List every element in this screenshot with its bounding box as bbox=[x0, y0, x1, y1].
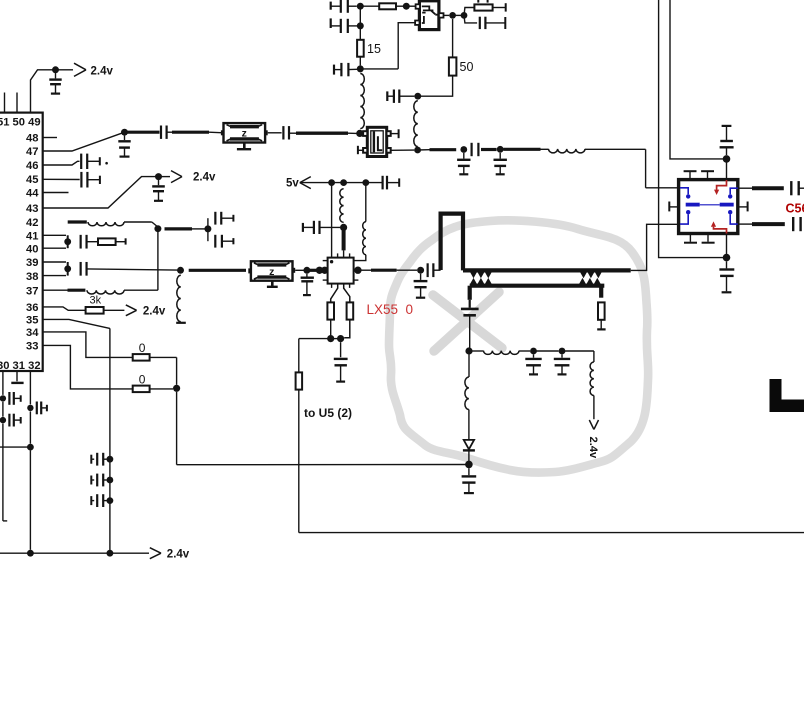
svg-text:2.4v: 2.4v bbox=[143, 306, 166, 318]
svg-text:43: 43 bbox=[26, 203, 38, 215]
mixer U3 body bbox=[679, 180, 738, 234]
node pin42 junction bbox=[154, 225, 161, 232]
wire R-top to node2 bbox=[396, 5, 403, 7]
svg-text:C56: C56 bbox=[786, 202, 804, 216]
IC U1 pin50 stub bbox=[16, 93, 18, 113]
wire node2 to Q1 bbox=[406, 5, 416, 7]
node IF2 bbox=[497, 146, 504, 153]
capacitor C-5v series bbox=[382, 176, 384, 190]
wire pin43 bbox=[43, 177, 156, 208]
crystal X1 pad RT bbox=[387, 131, 391, 136]
svg-text:42: 42 bbox=[26, 217, 38, 229]
wire pin39 long right bbox=[87, 269, 178, 270]
node p30 a bbox=[0, 395, 6, 401]
wire T1 secondary left end bbox=[468, 286, 472, 300]
wire X1 RT stub bbox=[391, 133, 399, 135]
svg-text:2.4v: 2.4v bbox=[193, 172, 216, 184]
capacitor C-det3 shunt bbox=[561, 354, 563, 357]
wire pin31 stub bbox=[16, 371, 18, 381]
node pin41-40 bbox=[64, 238, 71, 245]
wire C-32 out bbox=[41, 407, 46, 409]
wire pin33 bbox=[43, 345, 133, 389]
wire thick hairpin loop bbox=[441, 214, 463, 271]
wire coil to diode bbox=[468, 410, 470, 440]
inductor L-det horizontal bbox=[484, 351, 520, 355]
svg-text:39: 39 bbox=[26, 257, 38, 269]
wire pin39-38 bar bbox=[67, 262, 69, 276]
wire top row to R bbox=[360, 5, 379, 7]
node bias bbox=[340, 224, 347, 231]
filter FL2 left pad bbox=[248, 268, 251, 273]
node RC pair bbox=[461, 12, 468, 19]
wire R50 up bbox=[452, 19, 454, 57]
wire pin30 down c bbox=[2, 424, 4, 521]
mixer U3 top stub 1 bbox=[689, 172, 691, 180]
wire FL1 to C bbox=[268, 132, 282, 134]
arrow 2.4v pin43 bbox=[171, 171, 182, 177]
transistor Q1 pad D bbox=[439, 13, 444, 17]
ground filter FL2 bbox=[271, 281, 274, 286]
wire C-top1 to node bbox=[348, 5, 357, 7]
wire mixer out bottom bbox=[738, 223, 752, 225]
transformer T1 primary bumps bbox=[470, 272, 477, 279]
capacitor C-det2 shunt bbox=[533, 354, 535, 357]
crystal X1 electrode bars bbox=[373, 132, 375, 153]
mixer U3 bottom stub 1 bbox=[689, 234, 691, 242]
node 2.4v top-left junction bbox=[52, 66, 59, 73]
wire 2.4v bottom rail bbox=[0, 552, 149, 554]
IC U2 left stub top bbox=[323, 260, 328, 262]
svg-text:35: 35 bbox=[26, 315, 38, 327]
wire RC to cap bbox=[464, 15, 477, 23]
wire pin47 bbox=[43, 132, 125, 151]
wire C-42a out bbox=[221, 217, 233, 219]
mixer blue dot BR bbox=[728, 210, 732, 214]
wire bias bar to U2 bbox=[343, 250, 345, 257]
svg-text:2.4v: 2.4v bbox=[167, 549, 190, 561]
wire toU5 horizontal bbox=[299, 338, 331, 340]
arrow 2.4v bottom bbox=[150, 548, 161, 554]
capacitor C-FL2out shunt bbox=[301, 274, 314, 295]
wire thick pin42 right bbox=[165, 227, 193, 230]
wire det to coil bbox=[468, 355, 470, 378]
wire U2 out thin bbox=[397, 269, 417, 271]
transformer T1 secondary bbox=[470, 284, 605, 288]
wire pin47 right b bbox=[167, 131, 172, 133]
wire pin32 down b bbox=[29, 411, 31, 443]
wire agc down bbox=[593, 396, 595, 420]
capacitor C-30a series bbox=[8, 392, 10, 405]
crystal X1 pad RB bbox=[387, 148, 391, 153]
wire pin42 bend bbox=[152, 222, 158, 227]
wire det right d bbox=[562, 350, 594, 352]
node U2 out pad bbox=[354, 267, 361, 274]
capacitor C-top2 left tick bbox=[330, 18, 332, 28]
mixer blue bar right bbox=[720, 203, 734, 207]
wire thick pin37 bbox=[68, 289, 86, 292]
wire R-term down bbox=[600, 320, 602, 329]
svg-text:LX55 0: LX55 0 bbox=[367, 302, 414, 317]
wire thick pin47 right c bbox=[172, 131, 209, 134]
logo L mark bbox=[770, 379, 804, 412]
capacitor C-top3 series bbox=[340, 63, 342, 76]
capacitor C-42b series bbox=[214, 235, 216, 248]
node Rb out bbox=[337, 335, 344, 342]
IC U2 left stub bottom bbox=[323, 279, 328, 281]
wire thick pin47 right a bbox=[125, 131, 160, 134]
svg-text:36: 36 bbox=[26, 302, 38, 314]
capacitor C-load series bbox=[479, 17, 481, 29]
wire C-45 out bbox=[87, 179, 99, 181]
IC U2 bottom stub a bbox=[331, 284, 333, 288]
wire pin44 stub bbox=[43, 192, 69, 194]
transistor Q1 body bbox=[419, 1, 439, 30]
wire pin42 b bbox=[124, 221, 152, 223]
wire toU5 vertical b bbox=[298, 390, 300, 533]
wire thick out top bbox=[752, 186, 784, 190]
svg-text:41: 41 bbox=[26, 231, 38, 243]
mixer red arrow top bbox=[717, 180, 727, 190]
wire to crystal node bbox=[348, 132, 357, 134]
svg-text:40: 40 bbox=[26, 243, 38, 255]
wire C-42b out bbox=[222, 240, 233, 242]
resistor R-3k bbox=[86, 307, 104, 314]
node top-cap2 bbox=[357, 22, 364, 29]
wire R3k out bbox=[104, 309, 125, 311]
resistor R-b bbox=[347, 302, 354, 319]
capacitor C-42a series bbox=[214, 212, 216, 225]
wire pin30 down a bbox=[2, 371, 4, 395]
capacitor C-rb shunt bbox=[334, 342, 348, 381]
wire C-top2 lead bbox=[331, 25, 341, 27]
node rail-1 bbox=[27, 550, 34, 557]
arrow 5v bbox=[300, 177, 311, 183]
resistor R-top (base bias) bbox=[379, 3, 396, 9]
wire mixer out top bbox=[738, 187, 752, 189]
wire R0a down bbox=[176, 357, 178, 384]
capacitor C-32 series bbox=[36, 402, 38, 415]
IC U1 pin51 stub bbox=[4, 93, 6, 113]
node U2 in pad b bbox=[321, 267, 328, 274]
filter FL2 bbox=[251, 261, 293, 280]
node det bbox=[465, 347, 472, 354]
node p30 b bbox=[0, 417, 6, 423]
wire pin35 bbox=[43, 319, 110, 328]
wire X1 LB stub bbox=[358, 149, 363, 151]
arrow 2.4v down bbox=[589, 420, 594, 429]
crystal X1 inner bbox=[371, 131, 383, 153]
node U2 in pad a bbox=[316, 267, 323, 274]
resistor R15 bbox=[357, 40, 364, 57]
node p32 b bbox=[27, 444, 34, 451]
wire R0 down bbox=[176, 392, 178, 465]
mixer U3 bottom stub 2 bbox=[707, 234, 709, 242]
wire pin32 down c bbox=[29, 451, 31, 550]
inductor L-shunt below bbox=[177, 275, 181, 322]
mixer blue dot TR bbox=[728, 194, 732, 198]
wire pin40 bbox=[43, 247, 66, 249]
capacitor C-47a series bbox=[160, 126, 162, 139]
wire cap pair vertical bbox=[207, 218, 209, 241]
mixer blue dot TL bbox=[686, 194, 690, 198]
wire U2 to Rb bbox=[344, 284, 350, 303]
node FL2-out bbox=[303, 267, 310, 274]
inductor L-osc vertical bbox=[360, 74, 364, 129]
wire C-46 out bbox=[87, 160, 99, 162]
svg-text:0: 0 bbox=[139, 341, 146, 355]
wire left edge to p32 bbox=[0, 446, 30, 448]
capacitor C-xtal-in series bbox=[282, 126, 284, 139]
mixer U3 top stub 2 bbox=[707, 172, 709, 180]
filter FL2 right pad bbox=[293, 268, 296, 273]
wire C-bias to node bbox=[320, 226, 341, 228]
node mix2-in bbox=[417, 267, 424, 274]
node 5v-1 bbox=[328, 179, 335, 186]
mixer blue link bbox=[700, 204, 720, 206]
node pin47 junction bbox=[121, 129, 128, 136]
resistor R50 bbox=[449, 57, 457, 75]
capacitor C-top3 left tick bbox=[333, 65, 335, 75]
resistor R-a bbox=[327, 302, 334, 319]
wire Q1 node link bbox=[453, 14, 464, 16]
node Ra out bbox=[327, 335, 334, 342]
wire 2.4v top-left bbox=[56, 69, 74, 71]
wire pin34 bbox=[43, 332, 133, 358]
svg-text:51 50 49: 51 50 49 bbox=[0, 117, 41, 129]
capacitor C-top2 series bbox=[340, 19, 342, 33]
ground tick L-shunt bbox=[176, 322, 186, 324]
wire C-50line to node bbox=[399, 95, 414, 97]
node Q1-out bbox=[449, 12, 456, 19]
capacitor C-IF2 shunt bbox=[499, 153, 501, 159]
resistor R-u5 bbox=[296, 372, 303, 389]
wire pin45 bbox=[43, 178, 80, 180]
svg-text:48: 48 bbox=[26, 133, 38, 145]
wire pin41-40 bar bbox=[67, 235, 69, 248]
wire up to Q1 gate2 bbox=[398, 23, 415, 69]
wire corner down bbox=[645, 149, 647, 188]
wire toU5 vertical a bbox=[298, 339, 300, 373]
svg-text:37: 37 bbox=[26, 285, 38, 297]
capacitor C-50line left tick bbox=[386, 91, 388, 101]
capacitor C-top1 series bbox=[340, 0, 342, 13]
mixer U3 right pin tick bbox=[738, 206, 748, 208]
arrow 2.4v top-left bbox=[74, 63, 86, 70]
crystal X1 pad LT bbox=[363, 131, 367, 136]
inductor L-IF horizontal bbox=[549, 149, 586, 153]
wire L-drain to U2 corner bbox=[354, 255, 366, 261]
watermark circle bbox=[389, 220, 648, 472]
node xtal-out bbox=[414, 147, 421, 154]
crystal X1 body bbox=[367, 127, 386, 156]
wire thick to FL2 bbox=[189, 269, 246, 272]
wire node3 right bbox=[360, 68, 398, 70]
wire pin37 to vertical bbox=[124, 289, 158, 291]
capacitor C-diode shunt bbox=[462, 468, 477, 493]
wire X1 RB lead bbox=[391, 149, 415, 151]
capacitor C-mix-top bbox=[720, 126, 734, 155]
capacitor C-topleft decoupling bbox=[55, 70, 57, 79]
svg-text:3k: 3k bbox=[90, 294, 102, 306]
capacitor C56 series bbox=[792, 217, 794, 231]
wire pin37 bbox=[43, 289, 68, 291]
node diode out bbox=[465, 461, 473, 469]
capacitor C-mix2 series bbox=[427, 263, 429, 277]
capacitor C-47b shunt bbox=[124, 136, 126, 141]
svg-text:30 31 32: 30 31 32 bbox=[0, 360, 41, 372]
inductor L-fb vertical bbox=[414, 101, 418, 147]
svg-text:to U5 (2): to U5 (2) bbox=[304, 406, 352, 420]
wire to crystal thin bbox=[289, 132, 296, 134]
watermark X bbox=[433, 292, 502, 351]
capacitor C-IF series bbox=[471, 143, 473, 156]
wire C-30a out bbox=[14, 397, 21, 399]
wire out top edge bbox=[799, 187, 804, 189]
IC U2 bottom stub b bbox=[349, 284, 351, 288]
node det2 bbox=[530, 348, 537, 355]
node mixer-in junction bbox=[177, 267, 184, 274]
wire Ra down bbox=[330, 320, 332, 336]
wire pin35 vertical bbox=[109, 328, 111, 553]
node 5v-2 bbox=[340, 179, 347, 186]
wire det right b bbox=[519, 350, 530, 352]
capacitor C-50line series bbox=[393, 90, 395, 103]
node mixer bottom bbox=[723, 254, 731, 262]
wire 5v rail bbox=[300, 182, 382, 184]
wire top crop marks bbox=[477, 0, 479, 3]
filter FL1 bbox=[224, 123, 266, 142]
capacitor C-39 series bbox=[80, 262, 82, 276]
transistor Q1 symbol bbox=[422, 6, 439, 23]
node pin39-38 bbox=[64, 265, 71, 272]
wire pin48 stub bbox=[43, 137, 57, 139]
wire corner to mixer bbox=[646, 187, 679, 189]
wire T1 primary right end bbox=[631, 224, 679, 270]
wire R-41 out bbox=[116, 241, 126, 243]
capacitor C-det series plates bbox=[461, 308, 479, 311]
crystal X1 pad LB bbox=[363, 148, 367, 153]
capacitor C-IF1 shunt bbox=[463, 153, 465, 159]
inductor L-drain bbox=[363, 222, 366, 255]
transformer T1 primary bbox=[463, 268, 631, 272]
wire thick bias bar bbox=[342, 230, 346, 251]
node p32 a bbox=[27, 405, 33, 411]
node 5v-3 bbox=[362, 179, 369, 186]
capacitor C-byp3 series bbox=[90, 496, 92, 505]
mixer blue wire bottom-right bbox=[730, 214, 738, 224]
wire C-top2 to vert bbox=[348, 25, 361, 27]
svg-text:34: 34 bbox=[26, 327, 39, 339]
wire long vertical B bbox=[670, 0, 723, 159]
wire thick out bottom bbox=[752, 222, 785, 226]
resistor R-load bbox=[474, 4, 492, 10]
svg-text:0: 0 bbox=[139, 373, 146, 387]
mixer blue wire top-right bbox=[730, 188, 738, 194]
svg-text:z: z bbox=[242, 128, 247, 140]
svg-text:2.4v: 2.4v bbox=[91, 65, 114, 77]
mixer red arrow bottom bbox=[714, 227, 727, 234]
wire Q1 drain out bbox=[444, 14, 450, 16]
IC U2 pin1 dot bbox=[330, 260, 333, 263]
IC U1 pin49 stub bbox=[31, 70, 53, 113]
mixer U3 left pin tick bbox=[670, 206, 679, 208]
wire pin39 bbox=[43, 261, 66, 263]
wire FL2out to U2 bbox=[307, 269, 317, 272]
svg-text:45: 45 bbox=[26, 174, 38, 186]
wire Rb down bbox=[344, 320, 350, 338]
wire U2 to Ra bbox=[331, 284, 338, 303]
wire R0a out bbox=[150, 356, 177, 358]
wire pin38 bbox=[43, 275, 66, 277]
wire RC to resistor bbox=[464, 8, 474, 16]
filter FL1 left pad bbox=[221, 130, 224, 135]
capacitor C-bias left tick bbox=[302, 223, 304, 232]
capacitor C-top1 left tick bbox=[330, 2, 332, 10]
wire Ra-Rb link bbox=[331, 338, 341, 340]
wire R0b out bbox=[150, 388, 173, 390]
wire C-5v out bbox=[387, 182, 399, 184]
wire 5v-3 down bbox=[365, 183, 367, 222]
svg-text:2.4v: 2.4v bbox=[587, 437, 599, 460]
svg-text:33: 33 bbox=[26, 341, 38, 353]
node top2 bbox=[403, 3, 410, 10]
node mixer top bbox=[723, 155, 731, 163]
wire C-30b out bbox=[14, 419, 21, 421]
svg-text:50: 50 bbox=[460, 60, 474, 74]
transformer T1 secondary bumps bbox=[470, 278, 477, 285]
wire pin42 to capnode bbox=[192, 228, 205, 230]
node bypass 3 bbox=[107, 497, 114, 504]
wire det right c bbox=[534, 350, 559, 352]
mixer blue bar left bbox=[686, 203, 700, 207]
resistor R-0b bbox=[133, 386, 150, 393]
wire long vertical A bbox=[659, 0, 723, 258]
wire C-41 to R bbox=[87, 241, 98, 243]
capacitor C-45 series bbox=[80, 172, 82, 188]
capacitor C-30b series bbox=[8, 414, 10, 427]
wire C-bias lead bbox=[303, 226, 314, 228]
node pin43 2.4v bbox=[155, 173, 162, 180]
node top3 bbox=[357, 65, 364, 72]
inductor L-agc bbox=[590, 362, 594, 396]
IC U2 top stub 4 bbox=[349, 253, 351, 257]
svg-text:46: 46 bbox=[26, 160, 38, 172]
capacitor C55 series bbox=[790, 181, 792, 195]
wire thick pin42 a bbox=[68, 220, 87, 223]
node rail-2 bbox=[107, 550, 114, 557]
wire thick IF b bbox=[481, 148, 497, 151]
wire R-load out bbox=[493, 7, 506, 9]
wire vert x360 bbox=[359, 6, 361, 40]
svg-text:47: 47 bbox=[26, 146, 38, 158]
node cap pair bbox=[204, 225, 211, 232]
svg-text:15: 15 bbox=[367, 42, 381, 56]
wire pin32 down a bbox=[29, 371, 31, 404]
svg-text:5v: 5v bbox=[286, 178, 299, 190]
wire pin47 right d bbox=[209, 131, 224, 134]
resistor R-0a bbox=[133, 354, 150, 361]
resistor R-41 bbox=[98, 238, 116, 245]
wire long horizontal 465 bbox=[177, 464, 469, 466]
inductor L42 bbox=[88, 222, 124, 226]
node bypass 2 bbox=[107, 477, 114, 484]
capacitor C-byp2 series bbox=[90, 476, 92, 485]
diode D1 bbox=[464, 440, 474, 449]
wire 5v to U2 pin bbox=[331, 183, 333, 258]
wire pin30 down b bbox=[2, 402, 4, 417]
wire xtal-out right bbox=[418, 149, 430, 151]
node det3 bbox=[559, 348, 566, 355]
